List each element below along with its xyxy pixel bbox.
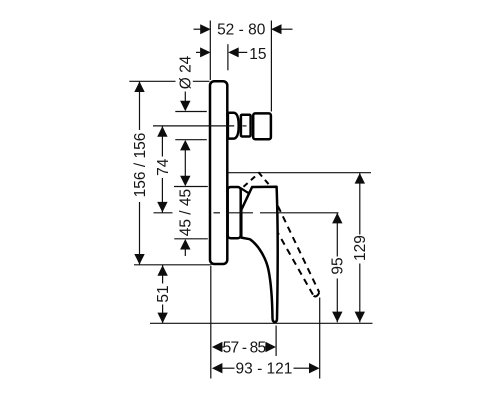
svg-text:129: 129 <box>352 235 369 261</box>
svg-text:Ø 24: Ø 24 <box>178 55 195 89</box>
svg-text:156 / 156: 156 / 156 <box>132 133 149 198</box>
svg-text:15: 15 <box>249 46 266 63</box>
svg-text:51: 51 <box>155 285 172 302</box>
svg-text:52 - 80: 52 - 80 <box>217 22 266 39</box>
svg-text:95: 95 <box>330 257 347 274</box>
svg-text:57 - 85: 57 - 85 <box>223 339 266 356</box>
svg-text:74: 74 <box>155 158 172 176</box>
svg-text:45 / 45: 45 / 45 <box>178 189 195 236</box>
svg-text:93 - 121: 93 - 121 <box>236 361 293 378</box>
